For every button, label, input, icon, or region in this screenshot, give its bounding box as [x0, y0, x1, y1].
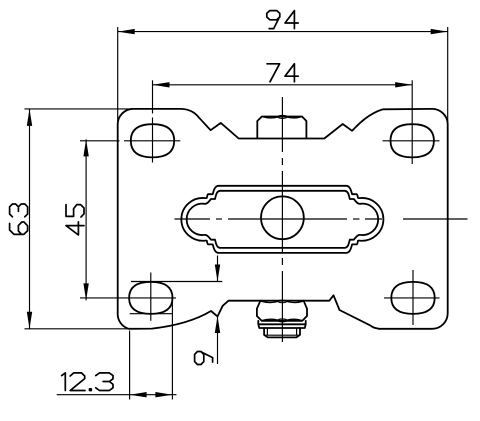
- bolt hole top-left: [131, 124, 174, 157]
- boss inner outline: [187, 191, 379, 248]
- boss horizontal centerline: [175, 218, 211, 220]
- centerline top-left hole horizontal: [80, 140, 120, 142]
- centerline top-right hole horizontal: [383, 140, 440, 142]
- stud thread end: [264, 328, 300, 337]
- centerline bottom-left hole vertical: [150, 273, 152, 321]
- dimension 45: [85, 139, 87, 300]
- centerline top-left hole vertical: [152, 80, 154, 113]
- washer: [258, 321, 305, 328]
- bolt hole top-right: [391, 124, 434, 157]
- dimension 9: [131, 281, 222, 283]
- centerline bottom-right hole vertical: [412, 270, 414, 325]
- dimension 63: [29, 109, 31, 329]
- centerline top-right hole vertical: [411, 80, 413, 164]
- dimension 94: [118, 31, 448, 33]
- centerline bottom-right hole horizontal: [384, 297, 440, 299]
- dimension 74: [153, 84, 413, 86]
- bottom hole lower tangent reference line: [130, 313, 173, 315]
- vertical centerline: [281, 97, 283, 152]
- boss outer outline: [181, 186, 383, 253]
- king pin hole: [261, 196, 304, 239]
- bottom nut: [257, 301, 307, 321]
- dimension 12.3: [57, 394, 177, 396]
- bolt hole bottom-left: [129, 282, 172, 314]
- bolt hole bottom-right: [391, 282, 434, 314]
- centerline bottom-left hole horizontal: [80, 297, 176, 299]
- top nut: [257, 117, 306, 139]
- plate outline: [118, 109, 448, 329]
